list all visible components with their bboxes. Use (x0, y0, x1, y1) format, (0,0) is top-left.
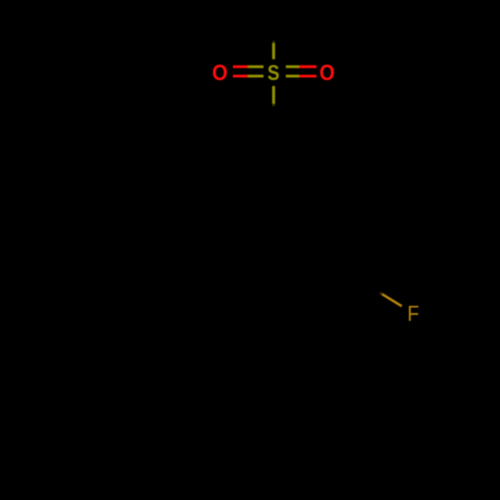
bond CH3-S (visible sulfur half) (272, 43, 275, 59)
atom label S (268, 65, 279, 80)
bond S-C(aryl) (dark fading tip toward ring carbon) (272, 104, 274, 106)
bond C-F (visible fluorine half) (382, 294, 402, 306)
double bond S=O left, lower line, S half (olive) (248, 75, 263, 78)
bond C-F (dark fading tip toward ring carbon) (380, 293, 383, 295)
double bond S=O right, lower line, O half (red) (299, 75, 316, 78)
double bond S=O right, lower line, S half (olive) (286, 75, 299, 78)
atom label O (right) (320, 65, 334, 81)
atom label O (left) (213, 65, 227, 81)
bond CH3-S (dark fading tip toward methyl carbon) (272, 41, 275, 43)
bond S-C(aryl) (visible sulfur half) (272, 86, 275, 104)
double bond S=O left, upper line, S half (olive) (248, 65, 263, 68)
double bond S=O right, upper line, S half (olive) (286, 65, 299, 68)
double bond S=O left, lower line, O half (red) (233, 75, 248, 78)
double bond S=O left, upper line, O half (red) (233, 65, 248, 68)
double bond S=O right, upper line, O half (red) (299, 65, 316, 68)
atom label F (409, 306, 419, 321)
